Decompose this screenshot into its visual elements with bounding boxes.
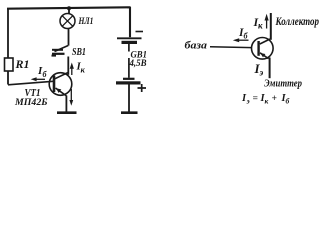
svg-text:э: э xyxy=(259,68,264,78)
svg-text:R1: R1 xyxy=(15,57,30,71)
svg-text:=: = xyxy=(253,94,258,104)
svg-text:к: к xyxy=(265,97,269,106)
svg-text:VT1: VT1 xyxy=(25,87,41,99)
svg-text:SB1: SB1 xyxy=(72,47,86,58)
svg-text:Эмиттер: Эмиттер xyxy=(264,79,302,90)
svg-text:э: э xyxy=(246,97,250,106)
svg-text:к: к xyxy=(258,21,263,31)
svg-text:+: + xyxy=(272,94,277,104)
svg-text:Коллектор: Коллектор xyxy=(275,16,319,28)
svg-text:МП42Б: МП42Б xyxy=(14,98,48,108)
svg-text:4,5В: 4,5В xyxy=(129,59,147,69)
svg-text:база: база xyxy=(185,40,208,52)
svg-text:НЛ1: НЛ1 xyxy=(78,17,94,27)
svg-text:к: к xyxy=(81,65,86,75)
svg-text:б: б xyxy=(286,97,290,106)
svg-text:б: б xyxy=(43,70,48,79)
svg-text:б: б xyxy=(244,32,249,41)
